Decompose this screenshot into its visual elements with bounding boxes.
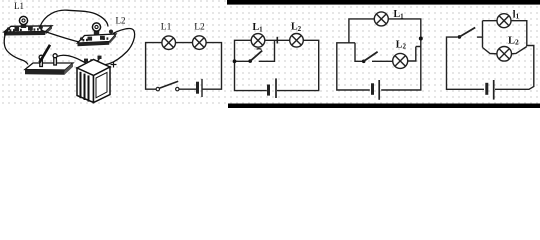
switch panel 2 (156, 81, 179, 91)
wire outer loop panel 3 (235, 40, 267, 90)
battery cell pictorial (77, 56, 110, 103)
wire arc L1-right over to L2 (40, 10, 108, 26)
svg-text:L2: L2 (508, 36, 519, 47)
switch S pictorial base (25, 63, 73, 75)
lower branch with lamp L2 panel 5 (483, 47, 527, 54)
wire switch-right to battery minus (57, 55, 100, 63)
battery panel 2 (198, 79, 203, 97)
wire L2-right loop to battery plus (91, 29, 135, 65)
svg-text:L1: L1 (14, 1, 24, 11)
upper branch with lamp L1 panel 5 (483, 21, 534, 90)
switch panel 3 (248, 49, 262, 63)
switch panel 4 (362, 52, 378, 63)
svg-text:L2: L2 (194, 22, 205, 32)
lamp L1 bulb (19, 16, 27, 28)
svg-text:L1: L1 (161, 22, 172, 32)
lamp L1 panel 3 (251, 34, 265, 48)
lamp L2 panel 4 (393, 53, 408, 68)
lamp L2 panel 3 (290, 34, 304, 48)
lamp L2 panel 2 (193, 36, 207, 50)
wire outer loop panel 2 (146, 43, 162, 90)
main wire with switch panel 5 (447, 37, 485, 89)
junction dot right side (419, 37, 423, 41)
switch branch wire panel 3 (235, 40, 275, 61)
battery plus sign (111, 62, 117, 68)
lamp L1 base (4, 25, 52, 35)
junction dot on left edge (233, 59, 237, 63)
junction node on top wire (276, 37, 278, 44)
lamp L2 bulb (92, 23, 100, 35)
split riser panel 5 (482, 21, 484, 48)
battery panel 5 (487, 80, 494, 100)
wire L1-left to switch (4, 30, 28, 65)
lamp L1 panel 5 (497, 14, 511, 28)
switch + L2 branch panel 4 (355, 43, 416, 62)
switch posts (39, 54, 57, 67)
lamp L1 panel 4 (374, 12, 388, 26)
wire top loop panel 4 (337, 19, 375, 90)
lamp L1 panel 2 (162, 36, 176, 50)
svg-text:L2: L2 (116, 16, 126, 26)
battery panel 3 (269, 78, 277, 98)
lamp L2 base (78, 30, 117, 47)
lamp L2 panel 5 (497, 47, 512, 62)
switch panel 5 (458, 28, 476, 39)
switch blade (open) (40, 45, 51, 63)
wire L1-right to L2-left (straight) (41, 30, 85, 43)
battery panel 4 (373, 80, 380, 100)
